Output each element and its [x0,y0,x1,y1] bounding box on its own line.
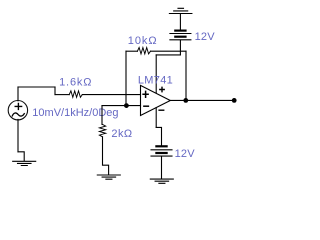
AC source sine wave [12,113,24,116]
wire node to R2 top [101,106,103,125]
svg-text:12V: 12V [175,148,196,160]
label LM741 [138,74,173,86]
wire step down [54,87,56,95]
wire op-amp output [170,99,234,101]
svg-text:1.6kΩ: 1.6kΩ [59,76,92,88]
battery V3 12V bottom [151,146,172,156]
junction dot output end [232,98,237,103]
op-amp U1 triangle [141,85,171,115]
wire feedback to R3 [126,50,137,52]
label 10kOhm [128,35,158,47]
ground GND3 top inverted [169,8,192,13]
wire jog to ground 1 [18,152,24,161]
wire minus-input node horizontal [102,105,141,107]
ground GND4 [150,179,173,183]
label 1.6kOhm [59,76,92,88]
label source value 10mV/1kHz/0Deg [32,107,118,119]
wire to resistor R1 left [55,94,69,96]
junction dot node A [124,103,129,108]
op-amp plus input mark [143,91,148,97]
resistor R3 10k zigzag [137,48,150,54]
wire R1 to op-amp plus input [82,94,140,96]
wire V- jog right [156,127,161,145]
AC source V1 circle [8,101,27,120]
ground GND1 [13,161,36,165]
wire V+ supply down to op-amp [155,55,157,93]
wire ground to battery V2 top [179,14,181,30]
svg-text:2kΩ: 2kΩ [111,128,132,140]
wire feedback vertical left [125,51,127,105]
resistor R2 2k zigzag [99,124,105,136]
op-amp V+ pin mark [160,87,164,91]
junction dot feedback/output [183,98,188,103]
wire R2 bottom to ground jog [103,137,109,175]
wire source bottom stub [17,119,19,151]
svg-text:10kΩ: 10kΩ [128,35,158,47]
wire top horizontal to step [18,86,55,88]
resistor R1 1.6k zigzag [69,91,82,97]
svg-text:LM741: LM741 [138,74,173,86]
op-amp minus input mark [144,105,149,107]
ground GND2 [97,175,120,179]
op-amp V- pin mark [159,109,164,111]
svg-text:10mV/1kHz/0Deg: 10mV/1kHz/0Deg [32,107,118,119]
wire battery V2 down [179,40,181,55]
wire R3 right to corner [151,50,187,52]
wire V- pin down [155,108,157,128]
AC source plus mark [15,103,21,109]
battery V2 12V top [170,31,191,40]
wire feedback vertical down to output [185,51,187,100]
wire battery V3 to ground [161,157,163,179]
label 2kOhm [111,128,132,140]
svg-text:12V: 12V [195,31,216,43]
wire supply jog left [156,54,180,56]
wire source top stub [17,87,19,101]
label 12V top [195,31,216,43]
label 12V bottom [175,148,196,160]
